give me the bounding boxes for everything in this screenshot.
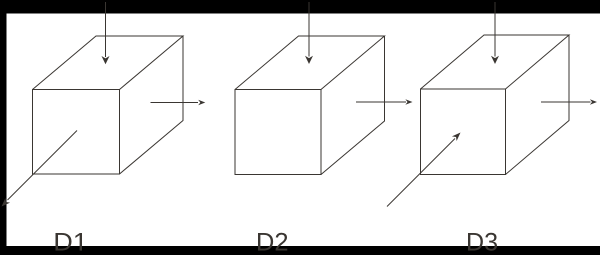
box D2 top face <box>235 36 385 90</box>
box D2 right face <box>321 36 385 175</box>
wire: D2 vertical input arrow shaft <box>308 2 310 57</box>
box D1 top face <box>33 36 184 90</box>
left black band <box>0 0 7 255</box>
arrowhead: D2 horizontal (right) <box>405 99 412 105</box>
box D3 right face <box>506 35 570 175</box>
bottom black band <box>0 246 600 255</box>
wire: D2 horizontal output arrow shaft <box>356 101 406 103</box>
box D2 front face <box>235 90 321 175</box>
wire: D1 horizontal output arrow shaft <box>151 102 199 104</box>
arrowhead: D1 horizontal (right) <box>198 100 205 106</box>
label D1 <box>56 233 83 251</box>
arrowhead: D2 vertical (down) <box>305 56 313 64</box>
label D2 <box>258 233 287 251</box>
arrowhead: D3 diagonal (up-right) <box>452 133 461 142</box>
arrowhead: D1 vertical (down) <box>102 56 110 64</box>
arrowhead: D3 horizontal (right) <box>590 99 597 105</box>
wire: D3 diagonal input arrow shaft <box>387 139 455 207</box>
box D3 top face <box>421 35 570 89</box>
box D1 front face <box>33 90 120 175</box>
label D3 <box>468 233 497 251</box>
wire: D1 diagonal output arrow shaft <box>8 131 78 201</box>
box D3 front face <box>421 89 506 175</box>
top black band <box>0 0 600 14</box>
arrowhead: D1 diagonal (down-left) <box>2 198 11 207</box>
wire: D3 vertical input arrow shaft <box>494 2 496 57</box>
wire: D1 vertical input arrow shaft <box>105 2 107 57</box>
box D1 right face <box>120 36 184 174</box>
wire: D3 horizontal output arrow shaft <box>541 101 591 103</box>
arrowhead: D3 vertical (down) <box>491 56 499 64</box>
